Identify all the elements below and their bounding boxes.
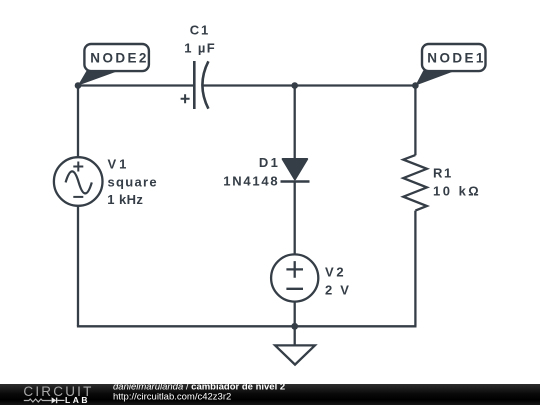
svg-text:R1: R1 bbox=[433, 166, 453, 181]
svg-text:LAB: LAB bbox=[65, 395, 90, 405]
svg-text:10 kΩ: 10 kΩ bbox=[433, 184, 481, 199]
svg-text:1N4148: 1N4148 bbox=[223, 173, 279, 188]
svg-text:square: square bbox=[108, 174, 158, 189]
svg-text:V2: V2 bbox=[325, 265, 346, 280]
svg-text:1 kHz: 1 kHz bbox=[107, 192, 143, 207]
svg-text:1 µF: 1 µF bbox=[184, 40, 216, 55]
svg-text:http://circuitlab.com/c42z3r2: http://circuitlab.com/c42z3r2 bbox=[113, 392, 231, 403]
svg-text:D1: D1 bbox=[259, 155, 280, 170]
svg-text:NODE1: NODE1 bbox=[427, 50, 486, 65]
svg-text:2 V: 2 V bbox=[325, 283, 351, 298]
svg-text:C1: C1 bbox=[190, 22, 210, 37]
svg-text:NODE2: NODE2 bbox=[90, 50, 149, 65]
svg-text:V1: V1 bbox=[108, 157, 130, 172]
